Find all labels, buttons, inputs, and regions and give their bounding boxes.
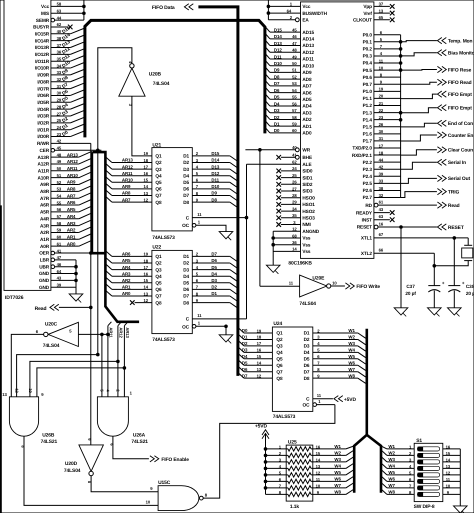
svg-text:I/O7R: I/O7R (37, 86, 49, 91)
svg-text:Q4: Q4 (276, 350, 283, 355)
svg-text:Q8: Q8 (276, 376, 283, 381)
svg-text:Q8: Q8 (155, 300, 162, 305)
svg-text:D2: D2 (183, 160, 189, 165)
svg-text:U15C: U15C (158, 480, 171, 486)
svg-text:I/O0R: I/O0R (37, 134, 49, 139)
svg-text:SEMR: SEMR (36, 18, 50, 23)
svg-text:RXD/P2.1: RXD/P2.1 (352, 153, 373, 158)
wire WR to U20E input (259, 150, 261, 286)
wire U20B output to CER (98, 48, 132, 355)
svg-text:C38: C38 (466, 284, 474, 289)
svg-text:BUSWIDTH: BUSWIDTH (302, 11, 327, 16)
svg-text:Vcc: Vcc (302, 4, 311, 9)
svg-text:Q4: Q4 (155, 173, 162, 178)
svg-text:HSO1: HSO1 (302, 202, 315, 207)
svg-text:W2: W2 (334, 451, 341, 456)
S1 switch rows (381, 446, 387, 449)
svg-text:HSO0: HSO0 (302, 195, 315, 200)
svg-text:I/O10R: I/O10R (35, 66, 50, 71)
svg-text:14: 14 (316, 457, 321, 462)
svg-text:HSO3: HSO3 (302, 216, 315, 221)
svg-text:W4: W4 (348, 348, 355, 353)
wire Vcc/MS rows to SEM vertical (51, 5, 84, 7)
svg-text:D8: D8 (183, 300, 189, 305)
svg-text:AD4: AD4 (302, 104, 312, 109)
svg-text:AD7: AD7 (302, 84, 312, 89)
svg-text:D4: D4 (183, 274, 189, 279)
svg-text:20 pf: 20 pf (405, 291, 416, 296)
svg-text:D3: D3 (211, 278, 217, 283)
svg-text:Q3: Q3 (155, 267, 162, 272)
IDT7026 address pin wires with AR13-AR0 bus entries (51, 156, 79, 158)
svg-text:D6: D6 (211, 258, 217, 263)
svg-text:74LS21: 74LS21 (41, 439, 58, 445)
svg-text:TXD/P2.0: TXD/P2.0 (352, 146, 372, 151)
svg-text:OC: OC (303, 403, 311, 408)
svg-text:W3: W3 (334, 457, 341, 462)
net label FIFO Write with arrow (331, 285, 345, 287)
svg-text:FIFO Empt: FIFO Empt (448, 106, 472, 112)
svg-text:Q1: Q1 (155, 254, 162, 259)
pin CER with bubble, wire to U20B output (51, 148, 55, 152)
svg-text:74ALS573: 74ALS573 (273, 414, 296, 420)
svg-text:1.1k: 1.1k (290, 504, 299, 510)
svg-text:P1.1: P1.1 (363, 96, 373, 101)
svg-text:W2: W2 (348, 335, 355, 340)
svg-text:BHE: BHE (302, 155, 312, 160)
svg-text:I/O8R: I/O8R (37, 79, 49, 84)
svg-text:A4R: A4R (40, 216, 50, 221)
svg-text:AD13: AD13 (302, 43, 314, 48)
svg-text:HSO2: HSO2 (302, 209, 315, 214)
svg-text:SID0: SID0 (302, 169, 313, 174)
wire U20C input from AR11 (78, 333, 108, 335)
svg-text:AR7: AR7 (67, 193, 76, 198)
svg-text:W8: W8 (334, 490, 341, 495)
svg-text:AR1: AR1 (67, 235, 76, 240)
svg-text:12: 12 (316, 470, 321, 475)
svg-text:Q2: Q2 (155, 261, 162, 266)
svg-text:D1: D1 (242, 335, 248, 340)
svg-text:AR2: AR2 (122, 278, 131, 283)
svg-text:A1R: A1R (40, 237, 50, 242)
svg-text:AR11: AR11 (109, 327, 114, 338)
svg-text:A2R: A2R (40, 230, 50, 235)
svg-text:D0: D0 (242, 328, 248, 333)
svg-text:D14: D14 (211, 158, 219, 163)
svg-text:D12: D12 (211, 171, 219, 176)
svg-text:D3: D3 (304, 344, 310, 349)
svg-text:74ALS573: 74ALS573 (152, 235, 175, 241)
svg-text:D6: D6 (304, 363, 310, 368)
svg-text:67: 67 (379, 232, 384, 237)
svg-text:80C196KB: 80C196KB (288, 261, 312, 267)
wire U26B output to U15C (24, 436, 158, 505)
svg-text:W3: W3 (348, 341, 355, 346)
svg-text:I/O5R: I/O5R (37, 100, 49, 105)
svg-text:W3: W3 (388, 457, 395, 462)
svg-text:FIFO Enable: FIFO Enable (161, 457, 189, 463)
svg-text:A10R: A10R (38, 175, 50, 180)
svg-text:19: 19 (257, 328, 262, 333)
svg-text:SID3: SID3 (302, 189, 313, 194)
svg-text:74LS04: 74LS04 (153, 81, 170, 87)
svg-text:Vpp: Vpp (363, 4, 372, 9)
wire XTL2 to cap C37 (374, 252, 434, 254)
svg-text:CLKOUT: CLKOUT (353, 18, 372, 23)
svg-text:D4: D4 (242, 354, 248, 359)
svg-text:AR13: AR13 (67, 152, 78, 157)
svg-text:AD1: AD1 (302, 124, 312, 129)
svg-text:16: 16 (316, 444, 321, 449)
svg-text:GND: GND (39, 285, 50, 290)
svg-text:15: 15 (316, 451, 321, 456)
pins LBR/UBR/GND tied to ground rail (51, 258, 55, 262)
data bus RAM side to AD bus (thick) (85, 20, 265, 137)
inverter U20B 74LS04 (119, 68, 145, 96)
svg-text:63: 63 (379, 214, 384, 219)
svg-text:Q1: Q1 (155, 154, 162, 159)
svg-text:Q8: Q8 (155, 200, 162, 205)
svg-text:20 p: 20 p (466, 291, 474, 296)
svg-text:W6: W6 (388, 477, 395, 482)
svg-text:TRIG: TRIG (448, 189, 460, 195)
svg-text:AR7: AR7 (122, 197, 131, 202)
ground under S1 (454, 506, 468, 513)
inverter U20C 74LS04 (48, 322, 78, 346)
page border left edge (0, 205, 2, 513)
svg-text:+5VD: +5VD (344, 397, 357, 403)
ground under C38 (448, 308, 462, 315)
svg-text:I/O14R: I/O14R (35, 38, 50, 43)
svg-text:I/O13R: I/O13R (35, 45, 50, 50)
svg-text:AR4: AR4 (122, 265, 131, 270)
svg-text:Q5: Q5 (155, 281, 162, 286)
svg-text:10: 10 (332, 281, 337, 286)
svg-text:BUSYR: BUSYR (33, 25, 50, 30)
svg-text:Q7: Q7 (155, 193, 162, 198)
W bus from U24 to resistor pack and DIP switch (thick) (365, 329, 368, 436)
svg-text:Q5: Q5 (276, 357, 283, 362)
svg-text:13: 13 (257, 367, 262, 372)
wire R/W vertical to U20D (90, 143, 92, 445)
U25 resistor rows with W1-W8 bus entries (266, 448, 288, 450)
svg-text:13: 13 (446, 464, 451, 469)
svg-text:13: 13 (2, 392, 7, 397)
svg-text:P1.7: P1.7 (363, 139, 373, 144)
svg-text:AR9: AR9 (67, 180, 76, 185)
svg-text:P0.5: P0.5 (363, 68, 373, 73)
wire U15C output to U24 OC (203, 405, 335, 499)
svg-text:OER: OER (39, 251, 50, 256)
net stub AR11 from address bus (108, 322, 112, 326)
svg-text:AD5: AD5 (302, 97, 312, 102)
svg-text:D1: D1 (183, 154, 189, 159)
svg-text:Q2: Q2 (155, 160, 162, 165)
wire U20D output to U15C pin 9 (91, 476, 158, 492)
svg-text:AD11: AD11 (302, 57, 314, 62)
svg-text:AR12: AR12 (119, 327, 124, 338)
svg-text:AR13: AR13 (125, 327, 130, 338)
port pin tie vertical with junctions (400, 35, 402, 198)
svg-text:14: 14 (446, 457, 451, 462)
svg-text:16: 16 (257, 348, 262, 353)
svg-text:AR5: AR5 (67, 207, 76, 212)
svg-text:Clear Coun: Clear Coun (448, 148, 473, 154)
svg-text:10: 10 (146, 500, 151, 505)
svg-text:D4: D4 (304, 350, 310, 355)
svg-text:I/O6R: I/O6R (37, 93, 49, 98)
svg-text:D8: D8 (183, 200, 189, 205)
svg-text:I/O1R: I/O1R (37, 127, 49, 132)
svg-text:FIFO Data: FIFO Data (152, 5, 175, 11)
svg-text:ALE: ALE (302, 162, 311, 167)
svg-text:EA: EA (302, 18, 309, 23)
svg-text:AR8: AR8 (67, 187, 76, 192)
svg-text:AR3: AR3 (67, 221, 76, 226)
svg-text:C37: C37 (406, 284, 415, 289)
svg-text:W6: W6 (348, 360, 355, 365)
svg-text:D2: D2 (304, 337, 310, 342)
svg-text:D3: D3 (242, 348, 248, 353)
svg-text:P0.1: P0.1 (363, 39, 373, 44)
svg-text:12: 12 (446, 470, 451, 475)
svg-text:Q1: Q1 (276, 331, 283, 336)
svg-text:Serial Out: Serial Out (448, 176, 471, 182)
svg-text:Q6: Q6 (276, 363, 283, 368)
svg-text:Q5: Q5 (155, 180, 162, 185)
svg-text:A3R: A3R (40, 223, 50, 228)
svg-text:OC: OC (182, 223, 190, 228)
wire AR13 branch to U26B (37, 368, 125, 397)
svg-text:AR2: AR2 (67, 228, 76, 233)
svg-text:P1.4: P1.4 (363, 117, 373, 122)
svg-text:D15: D15 (211, 151, 219, 156)
IDT7026 data pin wires with D15-D0 bus entries (51, 33, 71, 35)
svg-text:AD10: AD10 (302, 63, 314, 68)
wire S1 common to ground (459, 449, 461, 506)
svg-text:P1.5: P1.5 (363, 124, 373, 129)
svg-text:P1.0: P1.0 (363, 89, 373, 94)
svg-text:Q3: Q3 (155, 167, 162, 172)
svg-text:UBR: UBR (39, 264, 50, 269)
svg-text:AD12: AD12 (302, 50, 314, 55)
svg-text:P2.2: P2.2 (363, 160, 373, 165)
svg-text:D7: D7 (183, 294, 189, 299)
svg-text:U20C: U20C (45, 322, 58, 328)
svg-text:W5: W5 (388, 470, 395, 475)
svg-text:W5: W5 (334, 470, 341, 475)
svg-text:LBR: LBR (40, 258, 50, 263)
svg-text:D8: D8 (211, 197, 217, 202)
net label RESET right side (437, 224, 441, 230)
svg-text:D3: D3 (183, 167, 189, 172)
svg-text:16: 16 (446, 444, 451, 449)
svg-text:D7: D7 (211, 252, 217, 257)
svg-text:P0.6: P0.6 (363, 75, 373, 80)
svg-text:AD0: AD0 (302, 131, 312, 136)
latch U24 74ALS573 body (272, 327, 312, 411)
crystal Y1 (464, 244, 472, 246)
svg-text:74ALS573: 74ALS573 (152, 337, 175, 343)
svg-text:Vss: Vss (302, 249, 311, 254)
svg-text:W1: W1 (348, 328, 355, 333)
svg-text:U20D: U20D (65, 461, 78, 467)
svg-text:D6: D6 (183, 287, 189, 292)
svg-text:A12R: A12R (38, 162, 50, 167)
svg-text:I/O12R: I/O12R (35, 52, 50, 57)
svg-text:U20B: U20B (149, 72, 162, 78)
svg-text:Q4: Q4 (155, 274, 162, 279)
svg-text:10: 10 (316, 483, 321, 488)
svg-text:RESET: RESET (357, 225, 372, 230)
svg-text:AD14: AD14 (302, 37, 314, 42)
wire U20B input from U21 Q1 pin 19 (132, 96, 152, 156)
svg-text:D9: D9 (211, 191, 217, 196)
svg-text:D6: D6 (242, 367, 248, 372)
svg-text:AR11: AR11 (67, 166, 78, 171)
svg-text:U20E: U20E (312, 276, 325, 282)
svg-text:A5R: A5R (40, 210, 50, 215)
svg-text:66: 66 (379, 248, 384, 253)
wire U26A output to FIFO Enable (113, 436, 149, 459)
svg-text:D2: D2 (242, 341, 248, 346)
svg-text:AR1: AR1 (122, 285, 131, 290)
svg-text:D3: D3 (183, 267, 189, 272)
net stub AR13 from address bus (124, 322, 128, 326)
wire U20C output to U26B input 13 (11, 334, 43, 396)
svg-text:P0.0: P0.0 (363, 32, 373, 37)
svg-text:AD8: AD8 (302, 77, 312, 82)
svg-text:A8R: A8R (40, 189, 50, 194)
svg-text:D4: D4 (211, 271, 217, 276)
svg-text:AR0: AR0 (122, 291, 131, 296)
pin BUSYR with no-connect X (51, 26, 68, 28)
svg-text:W1: W1 (334, 444, 341, 449)
svg-text:M/S: M/S (41, 11, 49, 16)
svg-text:AR6: AR6 (67, 200, 76, 205)
wire ALE to U21/U22 latch clocks (246, 164, 248, 319)
inverter U20D 74LS04 (79, 445, 104, 471)
svg-text:D10: D10 (211, 184, 219, 189)
svg-text:P0.3: P0.3 (363, 54, 373, 59)
svg-text:W8: W8 (388, 490, 395, 495)
svg-text:RD: RD (365, 203, 372, 208)
svg-text:I/O3R: I/O3R (37, 114, 49, 119)
svg-text:W7: W7 (334, 483, 341, 488)
svg-text:D7: D7 (304, 369, 310, 374)
svg-text:15: 15 (257, 354, 262, 359)
svg-text:74LS04: 74LS04 (64, 468, 81, 474)
svg-text:W7: W7 (348, 367, 355, 372)
svg-text:74LS04: 74LS04 (43, 343, 60, 349)
svg-text:U26A: U26A (133, 433, 146, 439)
svg-text:P0.4: P0.4 (363, 61, 373, 66)
inverter U20E 74LS04 (300, 275, 327, 297)
svg-text:AD3: AD3 (302, 110, 312, 115)
svg-text:18: 18 (257, 335, 262, 340)
svg-text:W8: W8 (348, 373, 355, 378)
ground at U22 OC (219, 335, 233, 342)
svg-text:AR3: AR3 (122, 271, 131, 276)
microcontroller 80C196KB body (301, 2, 374, 259)
svg-text:R/WR: R/WR (37, 141, 50, 146)
address bus left segment (thick) (92, 152, 105, 253)
wire U20E input from WR (260, 285, 300, 287)
svg-text:13: 13 (316, 464, 321, 469)
svg-text:D13: D13 (211, 164, 219, 169)
FIFO data bus (thick vertical center) (198, 7, 238, 376)
svg-text:Vcc: Vcc (41, 4, 50, 9)
svg-text:Vss: Vss (302, 242, 311, 247)
svg-text:A9R: A9R (40, 182, 50, 187)
svg-text:P2.5: P2.5 (363, 181, 373, 186)
svg-text:P0.2: P0.2 (363, 47, 373, 52)
svg-text:XTL2: XTL2 (361, 251, 373, 256)
svg-text:W2: W2 (388, 451, 395, 456)
svg-text:D5: D5 (242, 360, 248, 365)
svg-text:P0.7: P0.7 (363, 82, 373, 87)
svg-text:W4: W4 (334, 464, 341, 469)
svg-text:AR12: AR12 (122, 164, 133, 169)
svg-text:W7: W7 (388, 483, 395, 488)
svg-text:OC: OC (182, 324, 190, 329)
svg-text:U25: U25 (288, 440, 297, 446)
svg-text:RESET: RESET (448, 225, 464, 231)
svg-text:D7: D7 (183, 193, 189, 198)
svg-text:W5: W5 (348, 354, 355, 359)
wire RD to Read label (378, 204, 437, 206)
wire XTL1 to crystal (374, 237, 468, 239)
svg-text:AR8: AR8 (122, 191, 131, 196)
svg-text:I/O11R: I/O11R (35, 59, 50, 64)
svg-text:A11R: A11R (38, 169, 50, 174)
svg-text:AR9: AR9 (122, 184, 131, 189)
svg-text:61: 61 (379, 199, 384, 204)
svg-text:+5VD: +5VD (255, 424, 268, 430)
svg-text:AD6: AD6 (302, 90, 312, 95)
net label Read right side (437, 202, 441, 208)
svg-text:D5: D5 (183, 180, 189, 185)
svg-text:Q3: Q3 (276, 344, 283, 349)
svg-text:14: 14 (257, 361, 262, 366)
svg-text:U24: U24 (273, 321, 282, 327)
svg-text:NMI: NMI (302, 222, 310, 227)
svg-text:GND: GND (39, 278, 50, 283)
svg-text:U26B: U26B (42, 433, 55, 439)
ground at U21 OC (219, 232, 233, 239)
svg-text:SID1: SID1 (302, 175, 313, 180)
svg-text:End of Con: End of Con (448, 121, 473, 127)
svg-text:AR10: AR10 (67, 173, 78, 178)
svg-text:10: 10 (446, 483, 451, 488)
svg-text:SW DIP-8: SW DIP-8 (414, 504, 435, 510)
svg-text:Q6: Q6 (155, 187, 162, 192)
svg-text:D1: D1 (304, 331, 310, 336)
svg-text:AR10: AR10 (122, 178, 133, 183)
pin SEMR with bubble (51, 18, 55, 22)
svg-text:D8: D8 (304, 376, 310, 381)
svg-text:W1: W1 (388, 444, 395, 449)
AND gate U26B 74LS21 (9, 397, 38, 436)
svg-text:FIFO Write: FIFO Write (356, 284, 380, 290)
svg-text:AR13: AR13 (122, 158, 133, 163)
svg-text:D5: D5 (211, 265, 217, 270)
svg-text:Serial In: Serial In (448, 160, 466, 166)
svg-text:S1: S1 (416, 438, 422, 444)
svg-text:Bias Monito: Bias Monito (448, 51, 474, 57)
address bus right segment (thick) (92, 152, 139, 322)
